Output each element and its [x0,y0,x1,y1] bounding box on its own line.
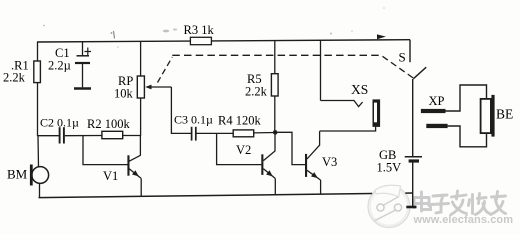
烧 [469,194,490,215]
wire top supply rail [37,40,410,42]
mechanical link dashed [158,57,173,83]
wire junction to V3 base [277,132,305,164]
resistor R1 [34,61,41,83]
svg-text:XS: XS [351,82,368,97]
svg-text:2.2k: 2.2k [245,85,268,99]
microphone BM [32,167,49,184]
potentiometer RP [140,41,142,76]
wire R1 to C2 node [37,83,39,137]
wire RP wiper to C3 [171,87,191,133]
capacitor C2 [38,135,59,137]
transistor V2 [261,154,263,175]
resistor R3 [190,37,211,44]
wire left branch top [37,42,39,61]
svg-text:www.elecfans.com: www.elecfans.com [413,214,514,226]
battery GB [405,156,422,158]
svg-text:C2 0.1µ: C2 0.1µ [40,116,79,130]
wire V1 base tap [83,136,128,165]
svg-text:1.5V: 1.5V [377,161,402,175]
子 [432,195,449,213]
svg-text:V3: V3 [322,155,337,169]
svg-text:10k: 10k [114,87,134,101]
svg-text:2.2k: 2.2k [3,71,26,85]
resistor R2 [102,131,123,138]
earphone BE [481,99,491,133]
transistor V1 [127,155,129,175]
resistor R4 [233,130,254,137]
resistor R5 [271,74,278,96]
arrow mark on rail [377,34,386,39]
svg-text:C3 0.1µ: C3 0.1µ [174,113,213,127]
svg-text:XP: XP [429,94,445,108]
watermark text 电子发烧友 (approximated strokes) [414,191,506,215]
wire bottom ground rail [39,194,373,198]
svg-text:2.2µ: 2.2µ [48,59,71,73]
switch S [409,40,411,63]
svg-text:R4 120k: R4 120k [218,114,261,128]
wire C3 to R4 [196,132,233,134]
电 [414,192,431,211]
wire C2 node to BM [37,136,40,167]
capacitor C1 [82,42,84,56]
transistor V3 [305,154,307,177]
发 [451,191,467,215]
svg-text:V2: V2 [236,143,251,157]
wire BM to bottom rail [39,183,41,197]
wire R5 branch [274,41,276,74]
wire V2 base tap [217,133,262,164]
capacitor C3 [191,127,193,141]
socket XS [320,40,322,100]
svg-text:R3 1k: R3 1k [184,23,215,37]
node junction [273,130,278,135]
svg-text:BE: BE [496,107,513,122]
svg-text:R2 100k: R2 100k [87,117,130,131]
wire R2 to collector node [123,135,140,137]
scan noise specks [43,7,385,48]
watermark logo [368,185,410,227]
wire R5 to node [274,96,276,133]
svg-text:V1: V1 [103,169,118,183]
svg-text:S: S [399,50,406,65]
wire R4 to junction [254,132,276,134]
svg-text:BM: BM [7,167,28,182]
友 [491,192,506,215]
plug XP [421,109,446,113]
wire S to battery [412,79,414,156]
